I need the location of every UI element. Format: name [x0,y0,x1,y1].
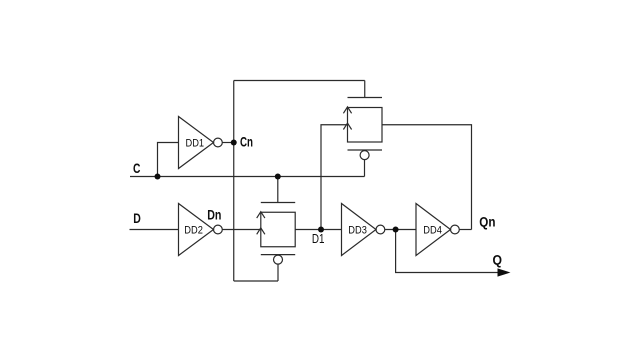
wire upper gate output to Qn riser [382,125,472,230]
node junction C-DD1 [155,174,161,180]
wire Cn vertical bus [233,81,235,282]
svg-text:D1: D1 [312,231,325,246]
svg-text:DD2: DD2 [184,225,203,237]
node junction Q branch [393,227,399,233]
node junction Cn [231,140,237,146]
node junction D1 [318,227,324,233]
svg-text:Qn: Qn [479,214,495,230]
svg-text:DD1: DD1 [186,138,205,150]
wire C input line [130,176,365,178]
svg-text:C: C [133,160,140,176]
transmission gate lower (clocked switch) [257,177,296,282]
wire DD3 output to DD4 input [385,229,416,231]
transmission gate upper (clocked switch) [343,81,382,160]
inverter DD1 [179,117,223,169]
inverter DD3 [342,204,385,256]
svg-text:DD4: DD4 [423,225,442,237]
wire D1 riser to upper gate input [321,125,348,230]
svg-text:Dn: Dn [207,207,221,223]
svg-text:DD3: DD3 [348,225,367,237]
svg-text:Q: Q [493,251,503,267]
arrowhead Q output [498,268,511,276]
wire lower gate output to D1 and DD3 [295,229,341,231]
wire bottom link Cn bus to lower gate bubble [234,280,278,282]
svg-text:D: D [133,210,141,226]
node junction C-lower-gate [275,174,281,180]
wire C to DD1 input riser [158,143,179,177]
wire top feedback Cn to upper gate [234,80,365,82]
wire DD2 output Dn to lower gate [222,229,260,231]
wire Q branch [396,230,499,273]
wire C line up to upper gate bubble [364,160,366,177]
wire DD4 output to Qn corner [459,229,471,231]
wire DD1 output to Cn node [222,142,233,144]
inverter DD4 [416,204,459,256]
wire D input line [130,229,179,231]
svg-text:Cn: Cn [240,134,253,150]
inverter DD2 [179,204,223,256]
